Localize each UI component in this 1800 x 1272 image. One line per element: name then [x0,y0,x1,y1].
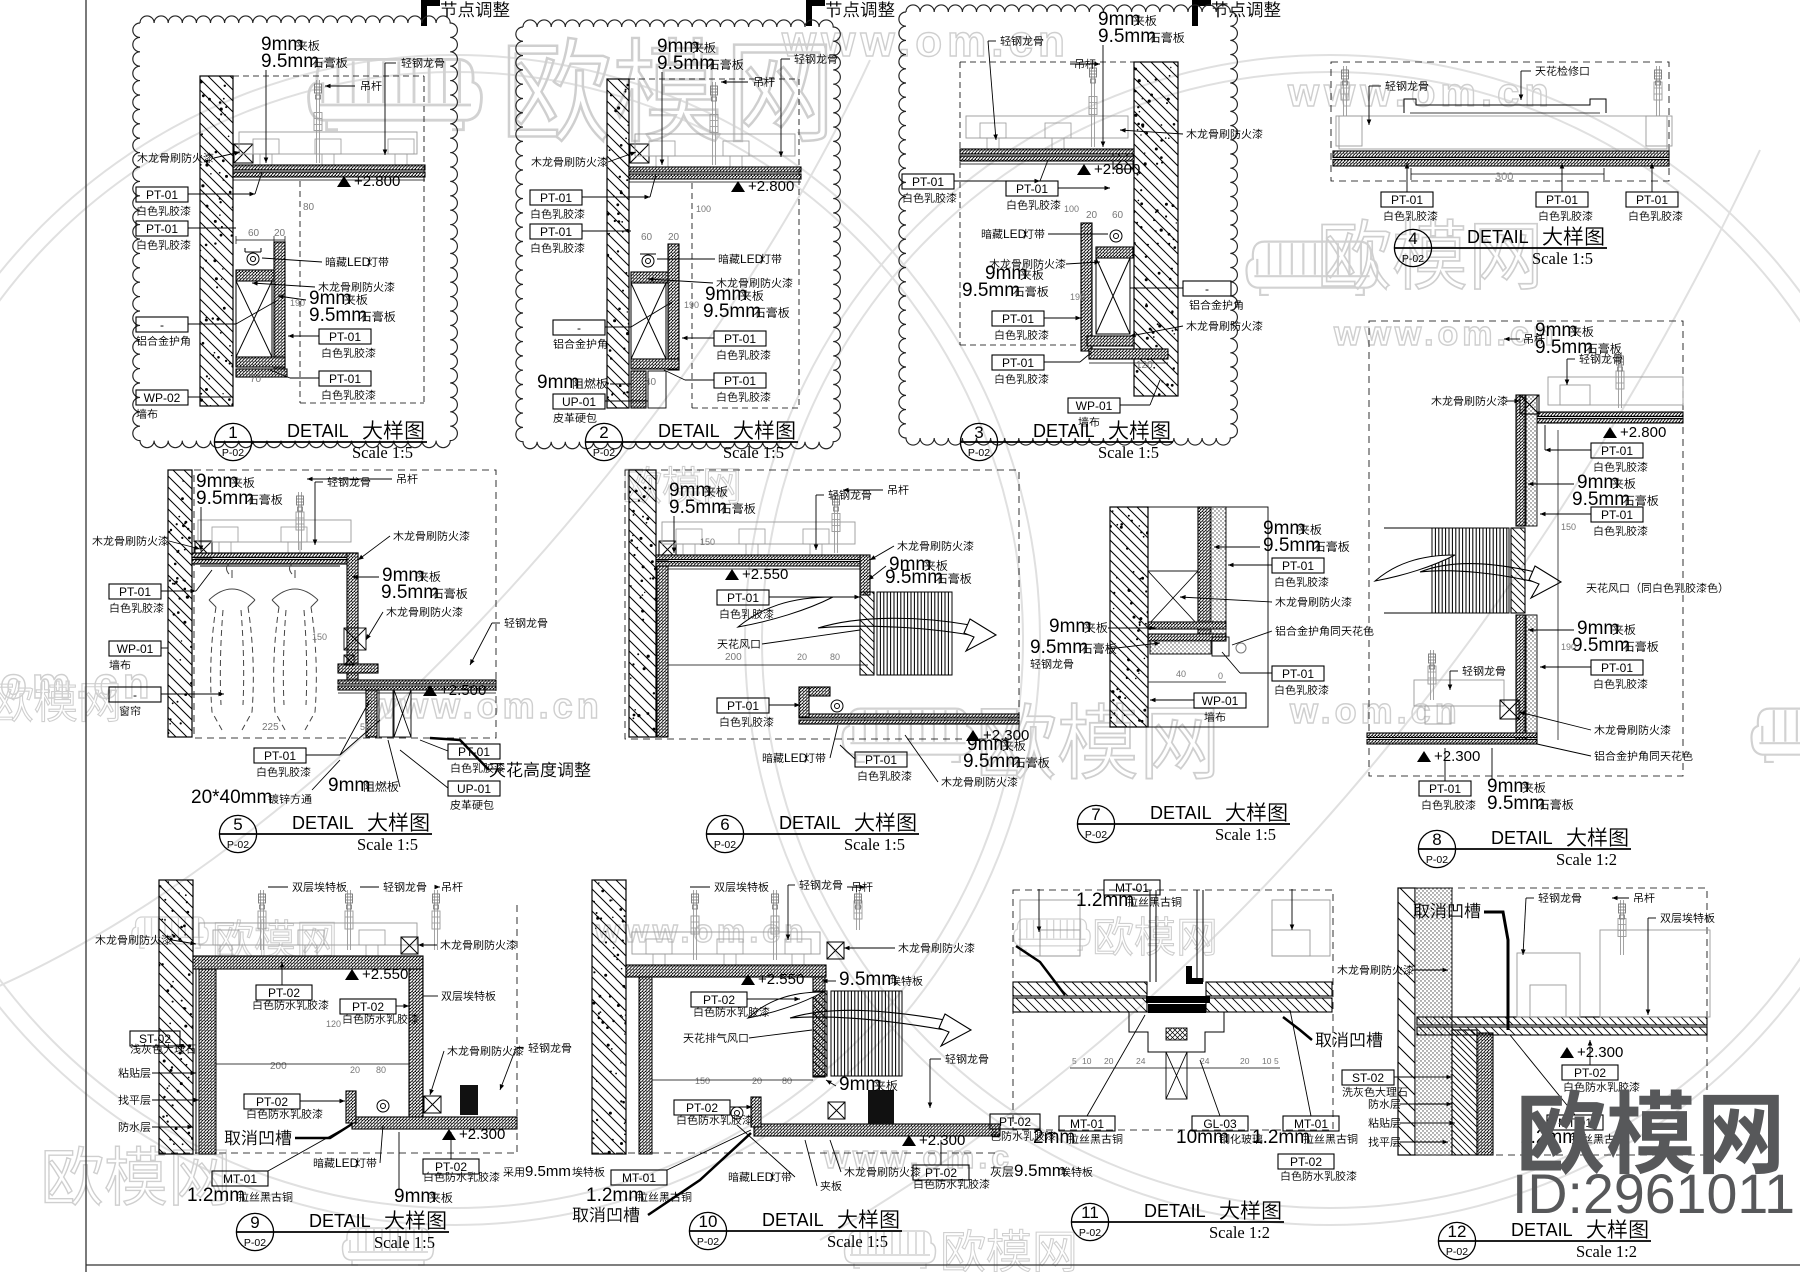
panel 1 label WP-02 [136,390,188,405]
panel 2 fire board strip [631,371,646,408]
panel 11 dim row [1070,1067,1280,1069]
svg-text:3: 3 [974,423,983,442]
svg-text:PT-01: PT-01 [1601,508,1633,522]
svg-text:UP-01: UP-01 [562,395,596,409]
svg-text:PT-01: PT-01 [727,591,759,605]
svg-text:PT-01: PT-01 [119,585,151,599]
svg-text:DETAIL: DETAIL [762,1210,824,1230]
svg-text:5: 5 [1274,1056,1279,1066]
svg-text:P-02: P-02 [1446,1246,1468,1258]
panel 8 upper ceiling assembly [1548,377,1683,405]
panel 5 left labels [92,536,102,546]
panel 3 revision cloud border [899,5,1237,445]
svg-text:Scale 1:5: Scale 1:5 [374,1233,435,1252]
svg-text:WP-02: WP-02 [144,391,181,405]
panel 10 wall tile dark strip [639,976,652,1154]
panel 11 top labels [1104,880,1160,895]
panel 6 labels left [717,590,769,605]
svg-text:11: 11 [1081,1203,1099,1222]
svg-text:PT-02: PT-02 [999,1115,1031,1129]
svg-text:10: 10 [699,1212,718,1231]
svg-text:PT-01: PT-01 [727,699,759,713]
panel 3 label WP-01 [1068,398,1120,413]
svg-text:2: 2 [599,423,608,442]
svg-text:P-02: P-02 [1079,1227,1101,1239]
svg-text:+2.300: +2.300 [1434,748,1480,765]
svg-text:190: 190 [1561,642,1576,652]
panel 9 top ceiling band thick [193,956,423,969]
svg-text:P-02: P-02 [968,447,990,459]
svg-text:PT-01: PT-01 [1546,193,1578,207]
panel 12 PT-02 label [1562,1065,1618,1080]
panel 8 labels bottom [1419,781,1471,796]
svg-text:MT-01: MT-01 [223,1172,257,1186]
panel 2 label light steel joist [794,54,804,64]
svg-text:P-02: P-02 [244,1237,266,1249]
panel 3 label light steel joist [1000,36,1010,46]
panel 9 drop near LED [346,1091,356,1123]
panel 6 x-box top [659,541,676,558]
panel 2 level mark [731,181,745,192]
svg-text:9.5mm: 9.5mm [1014,1161,1066,1180]
svg-text:200: 200 [270,1061,287,1072]
panel 1 dashed detail boundary [233,75,424,77]
svg-text:9.5mm: 9.5mm [885,567,943,588]
panel 1 level mark +2.800 [337,176,351,187]
svg-text:PT-02: PT-02 [1574,1066,1606,1080]
svg-text:DETAIL: DETAIL [1144,1201,1206,1221]
svg-text:4: 4 [1408,229,1417,248]
panel 3 label PT-01 c [992,311,1044,326]
panel 10 dashed boundary [592,1152,1000,1154]
panel 1 label PT-01 a [136,187,188,202]
panel 6 level +2.300 [966,730,980,741]
svg-text:PT-01: PT-01 [1282,559,1314,573]
svg-text:20: 20 [1104,1056,1114,1066]
svg-text:PT-02: PT-02 [435,1160,467,1174]
svg-text:150: 150 [1561,522,1576,532]
watermark bottom-left [45,1146,226,1205]
panel 11 niche step frame [1129,1012,1224,1052]
svg-text:+2.800: +2.800 [748,178,794,195]
svg-text:P-02: P-02 [227,839,249,851]
svg-text:LED: LED [740,252,764,266]
svg-text:120: 120 [326,1019,341,1029]
svg-text:+2.800: +2.800 [1094,161,1140,178]
svg-text:9mm: 9mm [1049,616,1091,637]
panel 1 label PT-01 b [136,221,188,236]
panel 11 left note [990,1166,1001,1177]
watermark sofa logo upper-right [1246,242,1377,295]
panel 3 lower soffit band [1089,349,1168,359]
svg-text:40: 40 [645,377,657,388]
panel 11 x-brace below [1166,1052,1187,1099]
panel 10 swoosh arrows [748,992,823,1018]
svg-text:www.om.cn: www.om.cn [1287,71,1554,115]
svg-text:1: 1 [228,423,237,442]
panel 3 bulkhead drop mirrored [1096,247,1133,258]
panel 8 dashed boundary [1369,321,1683,776]
panel 2 ceiling band [629,167,801,172]
panel 8 bottom ceiling band [1367,733,1537,738]
svg-text:190: 190 [1070,292,1085,302]
svg-text:LED: LED [347,255,371,269]
panel 8 vertical dim line [1557,430,1559,740]
panel 3 label aluminium corner right [1183,281,1231,296]
panel 7 step notch [1212,637,1229,656]
panel 9 x-box top right [401,937,418,954]
svg-text:PT-01: PT-01 [912,175,944,189]
revision marker 节点调整 [806,0,812,26]
svg-text:Scale 1:5: Scale 1:5 [723,443,784,462]
svg-text:Scale 1:5: Scale 1:5 [827,1232,888,1251]
svg-text:20: 20 [1086,210,1098,221]
svg-text:+2.550: +2.550 [758,971,804,988]
panel 1 label PT-01 d [319,371,371,386]
svg-text:80: 80 [830,652,840,662]
svg-text:PT-01: PT-01 [329,372,361,386]
svg-text:PT-01: PT-01 [1636,193,1668,207]
svg-text:PT-01: PT-01 [1002,312,1034,326]
svg-text:1.2mm: 1.2mm [586,1185,644,1206]
svg-text:9.5mm: 9.5mm [1030,637,1088,658]
panel 10 right vertical band [813,977,825,1077]
panel 3 label PT-01 a [902,174,954,189]
panel 2 revision cloud border [516,20,840,449]
svg-text:24: 24 [1136,1056,1146,1066]
panel 3 hanger rod [1091,64,1093,147]
svg-text:10: 10 [1082,1056,1092,1066]
panel 6 lower ceiling band [799,714,1019,718]
panel 3 title block [960,423,997,460]
svg-text:9.5mm: 9.5mm [963,751,1021,772]
panel 5 ceiling band top [192,553,358,558]
panel 11 title block [1071,1203,1108,1240]
panel 12 wall tile dark strip [1477,1033,1493,1155]
panel 3 label PT-01 d [992,355,1044,370]
panel 10 x-box lower [828,1102,845,1119]
svg-text:70: 70 [250,374,262,385]
panel 5 level +2.500 [423,685,437,696]
panel 3 LED lamp [1110,230,1122,242]
svg-text:+2.550: +2.550 [742,566,788,583]
svg-text:DETAIL: DETAIL [1491,828,1553,848]
panel 9 MT-01 label [212,1171,268,1186]
svg-text:PT-01: PT-01 [865,753,897,767]
panel 8 level +2.800 [1603,427,1617,438]
svg-text:+2.300: +2.300 [459,1126,505,1143]
panel 11 arrows down [1038,889,1040,932]
panel 3 label PT-01 b [1006,181,1058,196]
panel 2 label aluminium corner [553,320,605,335]
svg-text:DETAIL: DETAIL [1150,803,1212,823]
svg-text:+2.500: +2.500 [440,682,486,699]
svg-text:PT-01: PT-01 [724,374,756,388]
svg-text:DETAIL: DETAIL [292,813,354,833]
panel 6 dashed boundary [625,470,1019,739]
panel 12 wall stipple strip [1415,888,1452,1155]
panel 4 label PT-01 x3 [1381,192,1433,207]
svg-text:DETAIL: DETAIL [1467,227,1529,247]
svg-text:PT-02: PT-02 [256,1095,288,1109]
panel 6 ceiling suspension assembly [662,522,855,544]
svg-text:9.5mm: 9.5mm [839,969,897,990]
svg-text:7: 7 [1091,805,1100,824]
panel 1 label LED strip [326,257,336,267]
svg-text:100: 100 [696,204,711,214]
panel 6 labels bottom [855,752,907,767]
svg-text:PT-01: PT-01 [724,332,756,346]
panel 6 swoosh arrows [738,597,833,627]
panel 6 vent bulkhead vertical [860,555,870,595]
panel 7 board strips vertical [1198,507,1211,637]
panel 3 blocking x-box [1113,149,1133,169]
panel 1 ceiling suspension assembly [239,132,417,154]
revision marker 节点调整 [1192,0,1198,26]
panel 6 title block [706,815,743,852]
panel 8 labels right [1591,443,1643,458]
panel 12 cancel groove top [1414,904,1430,919]
panel 4 label ceiling access [1535,67,1545,76]
svg-text:9.5mm: 9.5mm [309,305,367,326]
panel 5 x-box top [195,541,212,558]
svg-text:-: - [160,318,164,332]
panel 2 LED lamp [642,255,654,267]
svg-text:+2.300: +2.300 [919,1132,965,1149]
panel 1 label fireproof coat [318,282,328,292]
panel 1 label mulongu top-left [137,153,147,163]
svg-text:300: 300 [1495,171,1513,183]
svg-text:5: 5 [1072,1056,1077,1066]
panel 12 dashed boundary [1398,888,1707,1155]
svg-text:WP-01: WP-01 [117,642,154,656]
panel 10 left labels [691,992,747,1007]
svg-text:1.2mm: 1.2mm [1076,890,1134,911]
svg-text:150: 150 [312,632,327,642]
svg-text:9.5mm: 9.5mm [525,1163,571,1180]
svg-text:Scale 1:5: Scale 1:5 [1098,443,1159,462]
panel 10 dark blocking [868,1090,894,1124]
svg-text:PT-02: PT-02 [686,1101,718,1115]
svg-text:PT-01: PT-01 [540,191,572,205]
panel 1 hanger rod [316,80,318,163]
svg-text:20: 20 [797,652,807,662]
panel 12 ST-02 left labels [1342,1070,1394,1085]
panel 2 label PT-01 b [530,224,582,239]
panel 2 label fireproof coat r [716,278,726,288]
panel 8 x-box bottom [1500,700,1519,719]
svg-text:DETAIL: DETAIL [779,813,841,833]
panel 4 dashed border [1331,62,1669,181]
panel 10 level marks [741,974,755,985]
watermark sofa logo top-left [309,59,482,129]
panel 4 title block [1394,229,1431,266]
panel 2 label PT-01 d [714,373,766,388]
svg-text:PT-02: PT-02 [703,993,735,1007]
panel 11 glass clamp black [1186,966,1203,984]
panel 2 label UP-01 [553,394,605,409]
panel 5 right drop vertical band [347,553,358,680]
panel 2 title block [585,423,622,460]
svg-text:-: - [1205,282,1209,296]
panel 11 glass partition vertical [1149,890,1151,982]
svg-text:PT-02: PT-02 [268,986,300,1000]
svg-text:PT-01: PT-01 [329,330,361,344]
svg-text:P-02: P-02 [222,447,244,459]
svg-text:Scale 1:2: Scale 1:2 [1209,1223,1270,1242]
svg-text:ST-02: ST-02 [139,1032,171,1046]
panel 9 dashed boundary [159,1152,517,1154]
panel 12 level +2.300 [1560,1047,1574,1058]
panel 8 wall vertical band upper [1516,395,1525,526]
panel 9 title block [236,1213,273,1250]
panel 12 fireproof label [1337,965,1347,975]
panel 10 LED groove drop [751,1097,761,1127]
panel 11 suspension parts [1020,900,1330,956]
panel 9 x-box lower [424,1096,441,1113]
svg-text:225: 225 [262,722,279,733]
panel 9 labels PT-02 [256,985,312,1000]
panel 5 ceiling suspension assembly [198,520,351,542]
panel 5 right labels [393,531,403,541]
svg-text:9mm: 9mm [394,1186,436,1207]
panel 2 label mulongu [531,157,541,167]
panel 9 top labels [292,883,302,892]
panel 12 MT-01 label [1547,1115,1603,1130]
svg-text:+2.800: +2.800 [1620,424,1666,441]
panel 3 label hanger [1075,59,1083,69]
svg-text:2mm: 2mm [1033,1127,1075,1148]
panel 9 dark blocking [460,1085,478,1115]
svg-text:0: 0 [1218,671,1223,681]
panel 10 ceiling suspension assembly [632,932,820,954]
panel 6 level +2.550 [725,569,739,580]
svg-text:Scale 1:2: Scale 1:2 [1556,850,1617,869]
svg-text:60: 60 [1112,210,1124,221]
svg-text:9.5mm: 9.5mm [1263,535,1321,556]
svg-text:PT-01: PT-01 [1601,661,1633,675]
panel 1 label aluminium corner [136,317,188,332]
svg-text:80: 80 [376,1065,386,1075]
svg-text:PT-01: PT-01 [1282,667,1314,681]
panel 5 title block [219,815,256,852]
panel 9 left stack labels [130,1031,180,1046]
panel 9 lower ceiling band [352,1117,517,1129]
panel 8 top ceiling band [1537,412,1683,417]
svg-text:40: 40 [1176,669,1186,679]
watermark row3 [132,917,208,948]
svg-text:P-02: P-02 [1426,854,1448,866]
svg-text:PT-02: PT-02 [925,1166,957,1180]
svg-text:6: 6 [720,815,729,834]
svg-text:9.5mm: 9.5mm [261,51,319,72]
svg-text:9.5mm: 9.5mm [703,301,761,322]
svg-text:10: 10 [1262,1056,1272,1066]
panel 8 bottom ceiling assembly [1414,680,1504,724]
panel 2 dashed boundary [629,78,799,80]
svg-text:-: - [577,321,581,335]
svg-text:Scale 1:5: Scale 1:5 [1532,249,1593,268]
svg-text:PT-01: PT-01 [1016,182,1048,196]
panel 1 bulkhead drop [236,270,274,281]
panel 5 dashed boundary [194,470,496,738]
svg-text:9.5mm: 9.5mm [669,497,727,518]
svg-text:20: 20 [752,1076,762,1086]
svg-text:Scale 1:5: Scale 1:5 [357,835,418,854]
svg-text:60: 60 [641,232,653,243]
svg-text:120: 120 [1136,360,1153,371]
panel 12 labels top [1538,893,1548,903]
svg-text:20: 20 [668,232,680,243]
svg-text:LED: LED [1003,227,1027,241]
panel 6 LED groove step [799,687,809,717]
panel 8 x-box top [1520,395,1539,414]
panel 1 label light steel joist [401,58,411,68]
panel 7 soffit bands [1148,622,1226,629]
svg-text:9.5mm: 9.5mm [1098,26,1156,47]
panel 2 blocking x-box [630,144,649,163]
panel 9 LED label [314,1158,324,1168]
svg-text:P-02: P-02 [697,1236,719,1248]
panel 1 label hanger rod [361,81,369,91]
svg-text:PT-01: PT-01 [264,749,296,763]
svg-text:+2.550: +2.550 [362,966,408,983]
panel 4 ceiling band [1333,151,1669,158]
panel 2 bulkhead drop [631,272,668,283]
panel 5 ceiling height note [490,763,506,777]
panel 4 access panel step line [1404,99,1606,113]
panel 1 LED lamp [247,253,259,265]
svg-text:P-02: P-02 [1085,829,1107,841]
panel 3 label fireproof coat [989,259,999,269]
panel 1 ceiling band [233,165,425,170]
panel 2 hanger rod [712,82,714,165]
panel 8 wall vertical band lower [1516,615,1525,743]
svg-text:PT-02: PT-02 [1290,1155,1322,1169]
panel 3 dashed boundary [960,61,1134,63]
panel 1 label PT-01 c [319,329,371,344]
svg-text:PT-01: PT-01 [540,225,572,239]
panel 10 top labels [714,883,724,892]
panel 7 WP-01 label [1194,693,1246,708]
svg-text:w.om.cn: w.om.cn [1289,690,1461,731]
svg-text:150: 150 [700,537,715,547]
svg-text:9: 9 [250,1213,259,1232]
svg-text:Scale 1:5: Scale 1:5 [1215,825,1276,844]
panel 9 right vertical band [409,969,423,1123]
panel 2 label PT-01 c [714,331,766,346]
panel 9 level marks [345,969,359,980]
svg-text:190: 190 [684,300,699,310]
svg-text:Scale 1:5: Scale 1:5 [352,443,413,462]
svg-text:PT-01: PT-01 [146,188,178,202]
panel 10 x-box top [827,942,844,959]
panel 3 label LED strip [982,229,992,239]
svg-text:PT-01: PT-01 [1601,444,1633,458]
panel 11 cancel groove right [1316,1033,1332,1048]
panel 9 right note [503,1167,513,1177]
svg-text:60: 60 [248,228,260,239]
panel 7 x-brace [1148,571,1198,625]
panel 4 label light steel joist [1385,81,1395,91]
panel 10 top ceiling band [626,965,826,977]
panel 11 bottom labels [990,1114,1040,1129]
svg-text:P-02: P-02 [593,447,615,459]
svg-text:UP-01: UP-01 [457,782,491,796]
panel 10 right labels [945,1054,955,1064]
panel 9 wall tile dark strip [199,957,216,1154]
svg-text:WP-01: WP-01 [1202,694,1239,708]
